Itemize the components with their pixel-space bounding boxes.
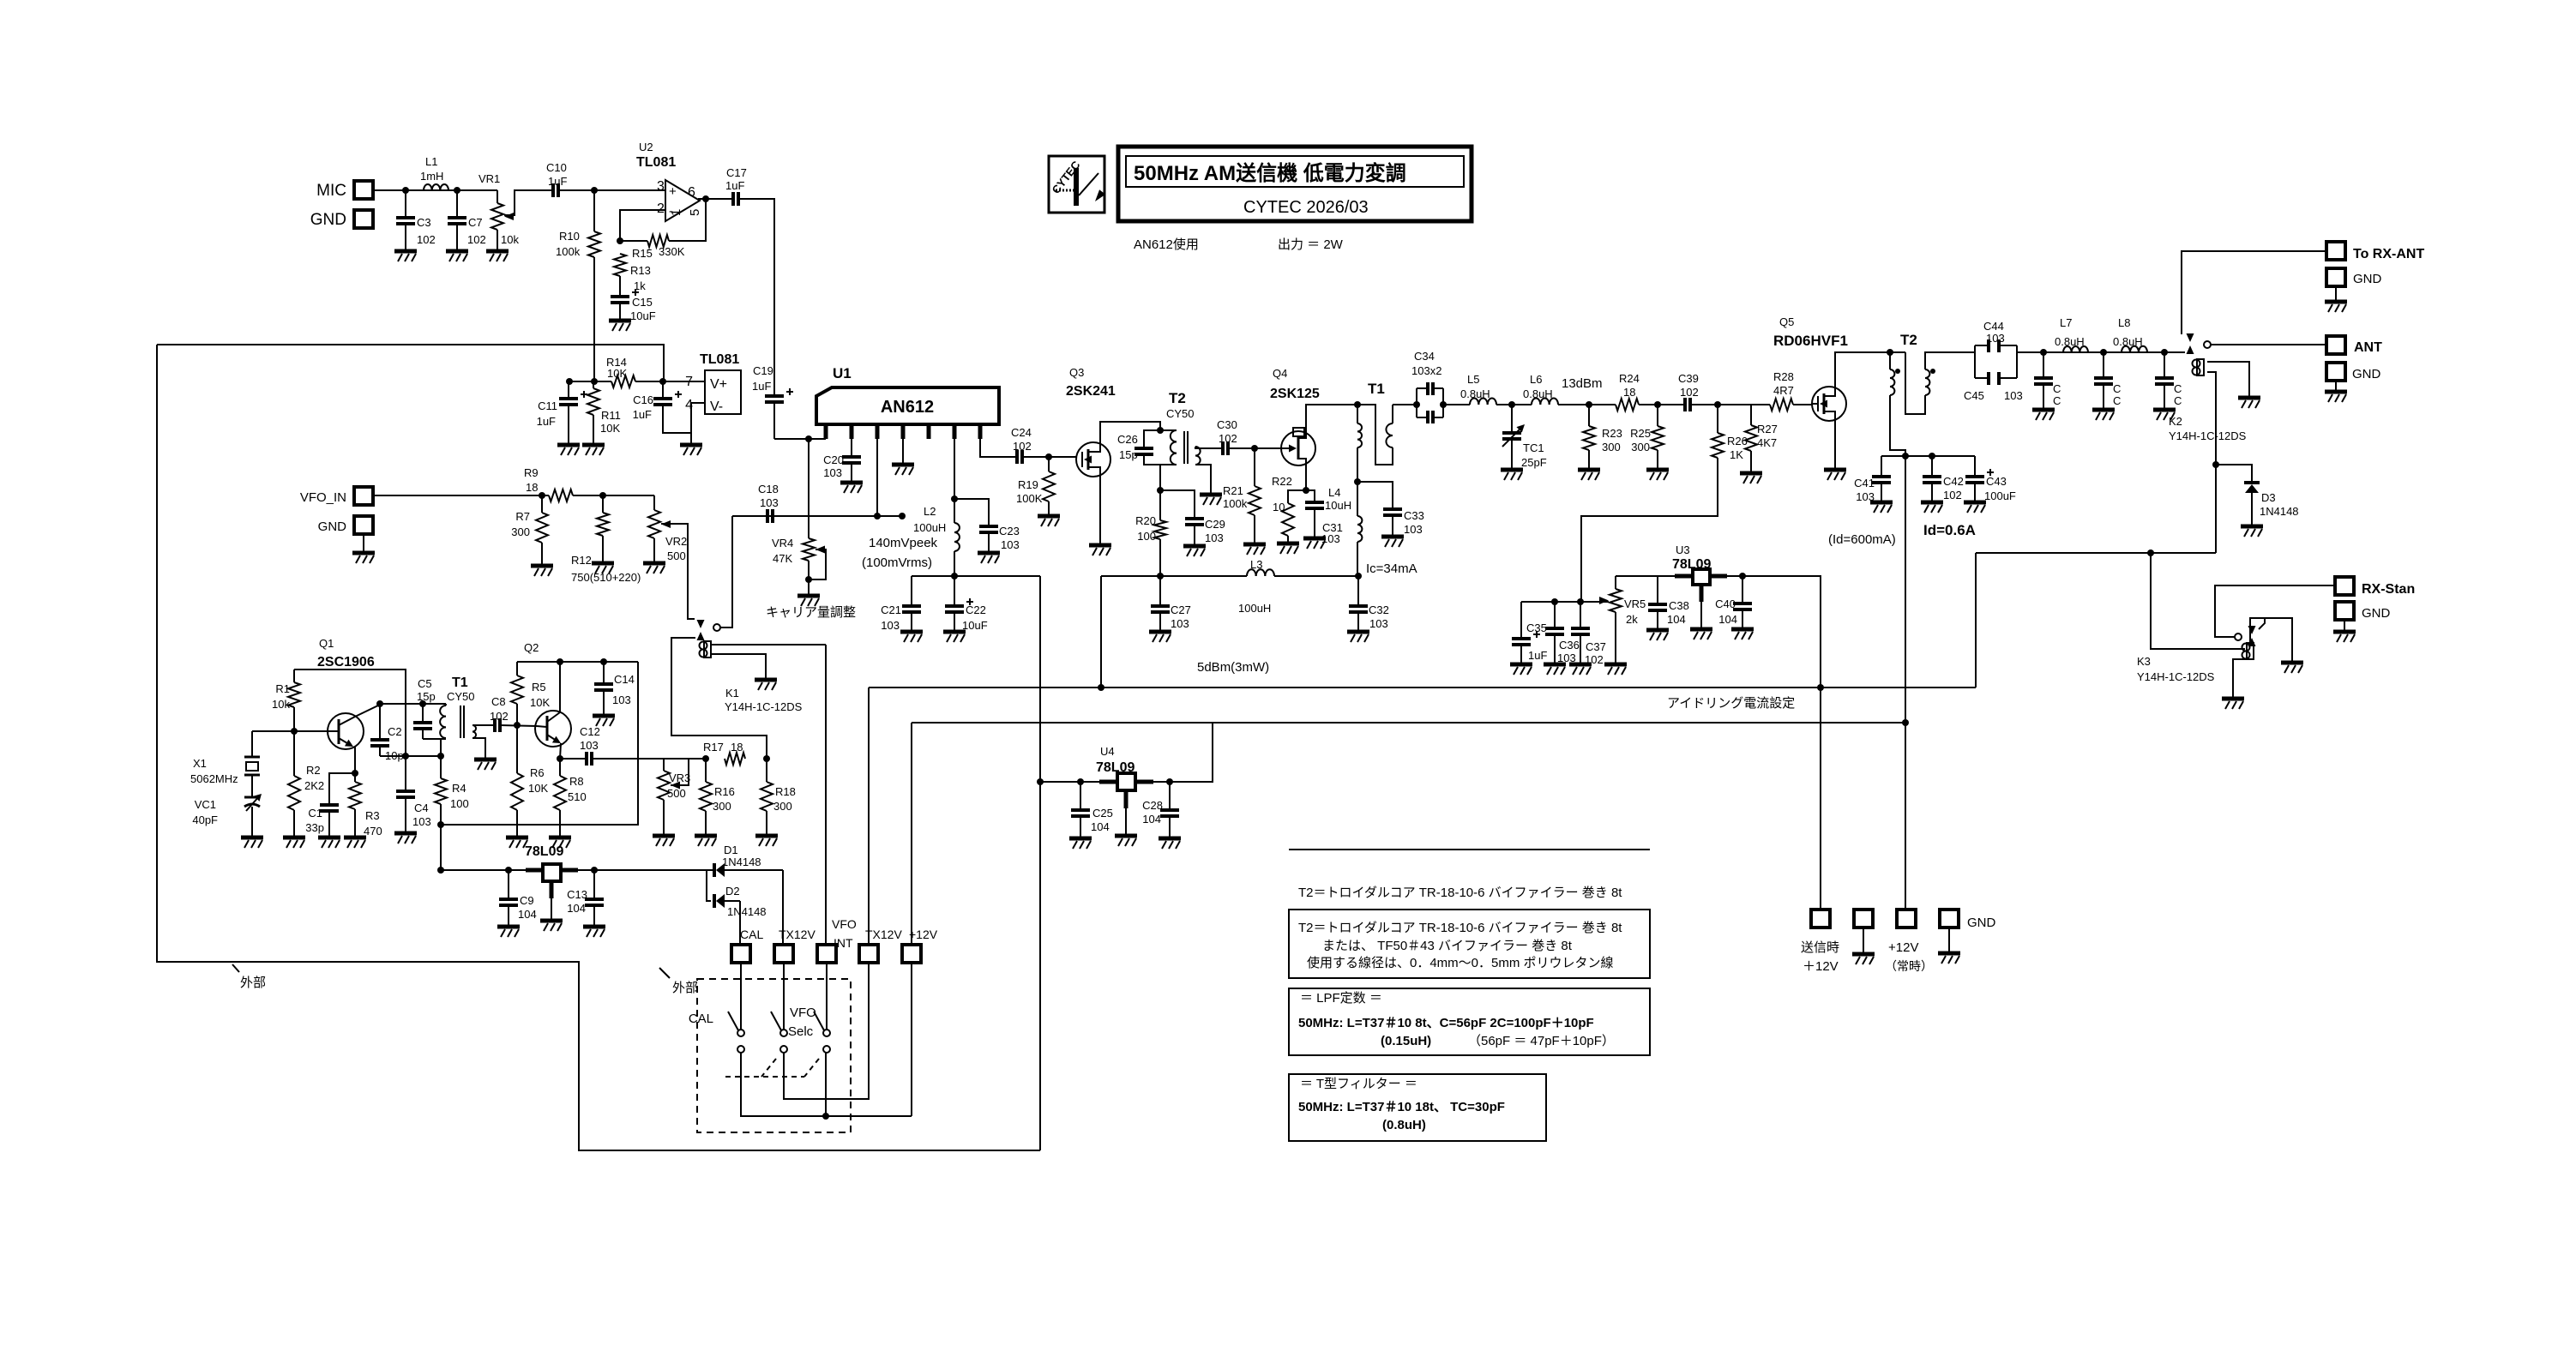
ANT pad [2326, 336, 2382, 355]
ground C15 [609, 321, 631, 331]
node U4 out [1037, 778, 1044, 785]
node bus T2 [1902, 453, 1909, 459]
pad TX12V-2 [859, 928, 902, 963]
relay K2 contact [2187, 333, 2212, 354]
node Q2 base [514, 722, 521, 729]
wire r28-q5 [1793, 404, 1813, 405]
svg-text:102: 102 [490, 710, 509, 723]
Q4 source [1305, 465, 1307, 490]
node R12 [599, 492, 606, 499]
wire K2 down [2215, 465, 2217, 553]
inductor L1 [420, 155, 448, 190]
ground R23 [1578, 470, 1600, 480]
wire cap bus [1881, 455, 1975, 457]
node rail1 u3 [1817, 684, 1824, 691]
wire R26 bias [1580, 516, 1582, 602]
svg-text:R8: R8 [569, 775, 584, 788]
node rail2 end [1902, 719, 1909, 726]
svg-text:C38: C38 [1669, 599, 1689, 612]
svg-text:C16: C16 [633, 393, 653, 406]
svg-text:L5: L5 [1467, 373, 1479, 386]
svg-text:103x2: 103x2 [1411, 364, 1441, 377]
Q4 drain [1306, 405, 1357, 431]
ground C33 [1381, 537, 1404, 547]
VFO_IN pad [300, 487, 373, 505]
resistor R12 [571, 495, 641, 584]
svg-text:102: 102 [1943, 489, 1962, 501]
svg-text:300: 300 [713, 800, 731, 813]
svg-text:C13: C13 [567, 888, 587, 901]
note Ic [1366, 561, 1417, 576]
node K2-D3 [2212, 461, 2219, 468]
node C14 [600, 658, 607, 665]
svg-text:C24: C24 [1011, 426, 1032, 439]
note 13dBm [1562, 376, 1603, 391]
svg-text:4K7: 4K7 [1757, 436, 1777, 449]
svg-text:K2: K2 [2169, 415, 2182, 428]
wire carrier [732, 515, 900, 517]
svg-text:1uF: 1uF [752, 380, 771, 393]
relay K2 coil [2193, 359, 2250, 465]
node out [702, 195, 709, 202]
svg-text:TL081: TL081 [700, 352, 739, 367]
svg-text:5: 5 [688, 209, 702, 216]
wire +12V TX vertical [1905, 456, 1906, 910]
transistor Q1 [328, 713, 364, 749]
svg-text:1N4148: 1N4148 [727, 905, 767, 918]
svg-text:GND: GND [2362, 606, 2391, 621]
Q5 source gnd [1824, 421, 1846, 480]
potentiometer VR5 [1599, 576, 1646, 664]
wire T2 to C30 [1209, 447, 1223, 449]
wire opamp out [698, 198, 733, 200]
capacitor C21 [881, 576, 921, 632]
diode D3 [2216, 465, 2299, 526]
ground C40 [1731, 629, 1754, 639]
ground shunt1 [2032, 410, 2055, 420]
ground C28 [1159, 838, 1181, 849]
capacitor C22 [945, 576, 988, 632]
svg-text:T2: T2 [1900, 332, 1917, 348]
svg-text:R26: R26 [1727, 435, 1748, 447]
capacitor C19 [752, 364, 793, 439]
capacitor C3 [396, 190, 436, 251]
wire c39-r28 [1690, 404, 1770, 405]
wire U5 out [578, 869, 714, 871]
capacitor C44/C45 [1964, 320, 2023, 402]
svg-text:R23: R23 [1602, 427, 1622, 440]
wire c8 out [500, 725, 537, 726]
note Id06 [1923, 522, 1976, 538]
resistor R14 [606, 356, 635, 387]
label L4 [1325, 486, 1351, 512]
svg-text:103: 103 [760, 496, 779, 509]
capacitor C18 [758, 483, 779, 523]
svg-text:100: 100 [450, 797, 469, 810]
svg-text:0.8uH: 0.8uH [1460, 387, 1490, 400]
wire C10 to pin3 [558, 189, 665, 191]
svg-text:2K2: 2K2 [304, 779, 324, 792]
note Id600 [1828, 532, 1896, 547]
ground R27 [1740, 473, 1762, 483]
resistor R3 [349, 773, 382, 838]
svg-text:102: 102 [1013, 440, 1032, 453]
svg-text:10k: 10k [272, 698, 290, 711]
node C11 [566, 378, 573, 385]
ground C31 [1303, 538, 1326, 549]
svg-text:T2＝トロイダルコア TR-18-10-6 バイファイラー: T2＝トロイダルコア TR-18-10-6 バイファイラー 巻き 8t [1298, 921, 1622, 935]
svg-text:(100mVrms): (100mVrms) [862, 555, 932, 570]
ground R25 [1646, 470, 1669, 480]
svg-text:10K: 10K [530, 696, 550, 709]
svg-text:R10: R10 [559, 230, 580, 243]
GND pad (vfo) [318, 516, 375, 563]
wire fb row [380, 755, 441, 757]
node Q1 c [376, 700, 383, 707]
wire mic to opamp [373, 189, 497, 191]
Q1 collector [355, 705, 380, 717]
U5 gnd [540, 898, 563, 931]
wire carrier to K1 [731, 516, 733, 627]
node C9 [505, 867, 512, 874]
ground C42 [1921, 502, 1943, 513]
svg-text:13dBm: 13dBm [1562, 376, 1603, 391]
wire lpf out [2017, 351, 2185, 353]
Q2 collector [547, 662, 560, 722]
resistor R13 [614, 254, 651, 297]
label gaibu box [659, 968, 698, 995]
svg-text:R19: R19 [1018, 478, 1038, 491]
svg-text:C2: C2 [388, 725, 402, 738]
node C4 top [402, 753, 409, 760]
wire l5-l6 [1496, 404, 1532, 405]
svg-text:(0.15uH): (0.15uH) [1381, 1034, 1431, 1048]
capacitor C40 [1715, 576, 1752, 629]
svg-text:R12: R12 [571, 554, 592, 567]
IC U1 AN612 [816, 365, 999, 424]
capacitor C shunt1 [2034, 352, 2061, 410]
ground C38 [1646, 630, 1669, 640]
svg-text:10k: 10k [501, 233, 519, 246]
node Q4 src [1303, 487, 1309, 494]
capacitor C43 [1965, 456, 2016, 502]
svg-text:VFO: VFO [790, 1006, 816, 1020]
svg-text:510: 510 [568, 790, 587, 803]
svg-text:+12V: +12V [1888, 940, 1918, 955]
capacitor C17 [725, 166, 747, 206]
note an612 [1134, 237, 1199, 252]
svg-text:VR3: VR3 [669, 772, 690, 784]
svg-text:GND: GND [2352, 367, 2381, 381]
capacitor C15 [611, 289, 656, 322]
ground C32 [1347, 632, 1369, 642]
wire ant [2211, 344, 2326, 345]
resistor R1 [272, 669, 300, 731]
svg-text:103: 103 [1369, 617, 1388, 630]
svg-text:（常時）: （常時） [1885, 959, 1933, 973]
node VR4 bot [805, 576, 812, 596]
svg-text:1K: 1K [1730, 448, 1743, 461]
svg-text:C45: C45 [1964, 389, 1984, 402]
svg-text:C: C [2053, 394, 2061, 407]
svg-text:CAL: CAL [740, 928, 763, 941]
node fb [617, 237, 623, 244]
svg-text:15p: 15p [417, 690, 436, 703]
ground C37 [1569, 664, 1592, 675]
svg-text:C12: C12 [580, 725, 600, 738]
svg-text:R28: R28 [1773, 370, 1794, 383]
pad CAL [731, 928, 763, 963]
capacitor C5 [413, 677, 436, 739]
resistor R28 [1770, 370, 1794, 411]
svg-text:103: 103 [580, 739, 599, 752]
svg-text:10: 10 [1273, 501, 1285, 513]
U4 gnd [1115, 808, 1137, 846]
svg-text:104: 104 [1718, 613, 1737, 626]
resistor R24 [1616, 372, 1640, 411]
relay K3 contact [2235, 618, 2265, 646]
svg-text:C1: C1 [308, 807, 322, 820]
svg-text:102: 102 [417, 233, 436, 246]
wire 9V top rail [157, 345, 664, 381]
inductor L6 [1523, 373, 1558, 405]
svg-text:R17: R17 [703, 741, 724, 754]
svg-text:Id=0.6A: Id=0.6A [1923, 522, 1976, 538]
wire U5 in [441, 869, 526, 871]
svg-text:TL081: TL081 [636, 155, 676, 170]
VR4 feed [808, 439, 810, 538]
transistor Q3 [1066, 366, 1116, 477]
diode D2 [707, 870, 767, 918]
note 140mVpeek [869, 536, 938, 550]
svg-text:R7: R7 [515, 510, 530, 523]
svg-text:C32: C32 [1369, 603, 1389, 616]
svg-text:C29: C29 [1205, 518, 1225, 531]
resistor R22 [1272, 475, 1306, 543]
svg-text:1N4148: 1N4148 [2260, 505, 2299, 518]
svg-text:R13: R13 [630, 264, 651, 277]
node R26R27 [1714, 401, 1721, 408]
node Q2 e [557, 755, 563, 762]
Q2 emitter [560, 743, 561, 759]
node R18 [763, 755, 770, 762]
pad VFO-INT [817, 917, 857, 963]
capacitor C36 [1545, 602, 1580, 664]
svg-text:100k: 100k [1223, 497, 1248, 510]
svg-text:1uF: 1uF [1528, 649, 1547, 662]
svg-text:2k: 2k [1626, 613, 1638, 626]
ground K3a [2281, 663, 2303, 673]
resistor R10 [556, 190, 600, 381]
ground C14 [593, 716, 615, 726]
resistor R17 [703, 741, 745, 765]
svg-text:6: 6 [688, 185, 695, 200]
svg-text:103: 103 [1986, 332, 2005, 345]
wire VR3 wiper [671, 759, 689, 785]
svg-text:U2: U2 [639, 141, 653, 153]
Q3 drain wire [1100, 422, 1160, 442]
separator [1289, 849, 1650, 850]
ground K3b [2222, 699, 2244, 709]
svg-text:To RX-ANT: To RX-ANT [2353, 247, 2424, 261]
capacitor C31 [1305, 490, 1343, 545]
svg-text:2SK125: 2SK125 [1270, 387, 1320, 401]
ground VR5 [1604, 664, 1627, 675]
svg-text:ANT: ANT [2354, 340, 2382, 355]
ground C11 [557, 445, 580, 455]
ground R22 [1277, 543, 1299, 554]
svg-text:R16: R16 [714, 785, 735, 798]
capacitor C25 [1071, 782, 1113, 838]
capacitor C4 [396, 756, 431, 833]
ground C21 [900, 632, 923, 642]
svg-text:C27: C27 [1171, 603, 1191, 616]
svg-text:VFO_IN: VFO_IN [300, 490, 346, 505]
svg-text:(0.8uH): (0.8uH) [1382, 1118, 1426, 1132]
svg-text:78L09: 78L09 [525, 844, 563, 859]
svg-text:100: 100 [1137, 530, 1156, 543]
wire U3 to pad [1820, 688, 1821, 910]
svg-text:10uF: 10uF [962, 619, 988, 632]
svg-text:18: 18 [526, 481, 538, 494]
ground C13 [583, 927, 605, 937]
ground VR3 [653, 836, 675, 846]
Q5 drain wire [1835, 352, 1905, 387]
resistor R11 [587, 381, 621, 445]
pad GND a [1852, 910, 1875, 964]
capacitor C13 [567, 870, 604, 927]
svg-text:RX-Stan: RX-Stan [2362, 582, 2415, 597]
trimmer TC1 [1502, 405, 1547, 470]
svg-text:1: 1 [669, 209, 683, 216]
svg-text:C21: C21 [881, 603, 901, 616]
ground VR1 [486, 251, 509, 261]
svg-text:0.8uH: 0.8uH [1523, 387, 1553, 400]
capacitor C24 [1011, 426, 1032, 464]
ground R7 [531, 566, 553, 576]
ground C35 [1510, 664, 1532, 675]
svg-text:MIC: MIC [316, 182, 346, 200]
capacitor C28 [1142, 782, 1179, 838]
ground R18 [755, 836, 778, 846]
svg-text:T1: T1 [452, 676, 468, 690]
wire U3 in [1616, 575, 1675, 577]
svg-text:C40: C40 [1715, 597, 1736, 610]
svg-text:CAL: CAL [689, 1012, 713, 1026]
wire Q2 rail [517, 661, 638, 663]
svg-text:R1: R1 [275, 682, 290, 695]
svg-text:CY50: CY50 [1166, 407, 1195, 420]
svg-text:300: 300 [773, 800, 792, 813]
node shunt1 [2040, 349, 2047, 356]
transistor Q4 [1270, 367, 1320, 465]
inductor L7 [2055, 316, 2088, 352]
ground C36 [1544, 664, 1566, 675]
svg-text:50MHz: L=T37＃10 18t、 TC=30pF: 50MHz: L=T37＃10 18t、 TC=30pF [1298, 1100, 1505, 1114]
svg-text:VFO: VFO [832, 917, 857, 931]
wire rail1-TX12V2 [868, 688, 870, 945]
svg-text:750(510+220): 750(510+220) [571, 571, 641, 584]
svg-text:L2: L2 [924, 505, 936, 518]
crystal X1 [190, 731, 260, 797]
ground V- [680, 445, 702, 455]
svg-text:T1: T1 [1368, 381, 1385, 397]
note box1 [1289, 910, 1650, 978]
svg-text:C36: C36 [1559, 639, 1580, 651]
ground C43 [1964, 502, 1986, 513]
ground C7 [446, 251, 468, 261]
note carrier adjust [766, 605, 856, 620]
GND pad (mic) [310, 210, 373, 229]
svg-text:C44: C44 [1983, 320, 2004, 333]
node R25 [1654, 401, 1661, 408]
svg-text:104: 104 [518, 908, 537, 921]
capacitor C37 [1571, 602, 1606, 666]
node pin7 [659, 378, 666, 385]
inductor L3 [1238, 558, 1274, 615]
label K3 [2137, 655, 2215, 683]
wire C12 out [592, 758, 706, 760]
node C25 [1077, 778, 1084, 785]
transistor Q2 [535, 711, 571, 747]
svg-text:C: C [2174, 394, 2182, 407]
svg-text:103: 103 [1205, 531, 1224, 544]
svg-text:出力 ＝ 2W: 出力 ＝ 2W [1278, 237, 1344, 252]
node R10 top [591, 187, 598, 194]
resistor R27 [1745, 405, 1778, 473]
svg-text:40pF: 40pF [192, 814, 218, 826]
note 5dBm [1197, 660, 1269, 675]
svg-text:R5: R5 [532, 681, 546, 694]
pad TX+12V [1801, 910, 1839, 974]
resistor R4 [435, 756, 469, 870]
wire Q1 rail [294, 669, 406, 756]
svg-text:TC1: TC1 [1523, 441, 1544, 454]
svg-text:C9: C9 [520, 894, 534, 907]
svg-text:Ic=34mA: Ic=34mA [1366, 561, 1417, 576]
ground TC1 [1501, 470, 1523, 480]
svg-text:C3: C3 [417, 216, 431, 229]
node C36 [1551, 598, 1558, 605]
svg-text:U3: U3 [1676, 543, 1690, 556]
label Q2 [524, 641, 539, 654]
svg-text:GND: GND [318, 519, 347, 534]
svg-text:C11: C11 [538, 399, 557, 412]
capacitor C33 [1357, 482, 1424, 537]
svg-text:R27: R27 [1757, 423, 1778, 435]
node R14 left [591, 378, 598, 385]
node 2508 [2147, 549, 2154, 556]
wire U4 out [1040, 781, 1099, 783]
TL081 power box U2b [685, 352, 741, 414]
node R4 rail [437, 821, 444, 828]
note T2a [1298, 886, 1622, 900]
svg-text:C35: C35 [1526, 621, 1547, 634]
svg-text:103: 103 [1404, 523, 1423, 536]
potentiometer VR4 [772, 537, 826, 579]
pin4 gnd [892, 439, 914, 475]
MIC pad [316, 181, 373, 200]
svg-text:Q3: Q3 [1069, 366, 1084, 379]
svg-text:103: 103 [823, 466, 842, 479]
node R7 [539, 492, 545, 499]
note 100mVrms [862, 555, 932, 570]
pin6 down [954, 439, 955, 499]
wire D2-CAL [739, 901, 741, 945]
svg-text:104: 104 [1091, 820, 1110, 833]
svg-text:GND: GND [310, 211, 346, 229]
potentiometer VR3 [658, 759, 690, 836]
